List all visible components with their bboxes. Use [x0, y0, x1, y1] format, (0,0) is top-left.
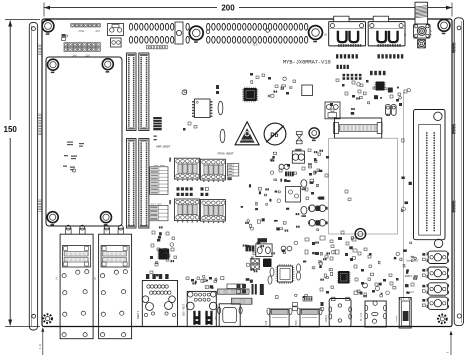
svg-text:POWER: POWER — [395, 315, 398, 322]
svg-text:JTAG: JTAG — [78, 30, 85, 33]
svg-text:DC_12V: DC_12V — [360, 312, 363, 321]
svg-text:ENET1: ENET1 — [137, 310, 140, 319]
svg-text:J20: J20 — [85, 55, 90, 58]
svg-text:ARM BOOT: ARM BOOT — [156, 146, 171, 149]
svg-text:200: 200 — [221, 3, 235, 12]
svg-text:CAM: CAM — [265, 320, 268, 325]
svg-text:FPGA BOOT: FPGA BOOT — [218, 152, 234, 155]
svg-text:MIPI: MIPI — [295, 319, 298, 325]
svg-text:J23: J23 — [95, 30, 100, 33]
svg-text:J40: J40 — [72, 55, 77, 58]
svg-text:150: 150 — [4, 125, 18, 134]
svg-text:MYB-JX8MMA7-V10: MYB-JX8MMA7-V10 — [283, 60, 331, 66]
svg-text:USB_C: USB_C — [215, 312, 218, 320]
svg-text:J13: J13 — [252, 44, 258, 47]
svg-text:1.6: 1.6 — [39, 344, 42, 349]
svg-text:USB HOST: USB HOST — [183, 303, 186, 316]
svg-text:AUDIO: AUDIO — [325, 314, 328, 322]
